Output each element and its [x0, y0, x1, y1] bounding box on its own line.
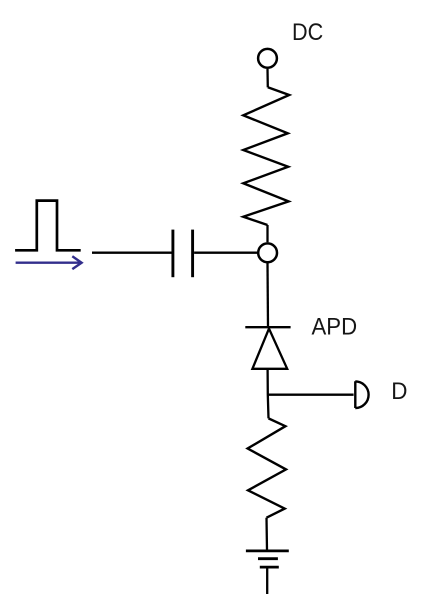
wire: [266, 369, 269, 418]
battery / supply (bottom plate): [260, 566, 279, 569]
wire: [92, 252, 172, 254]
wire (to detector): [269, 394, 354, 396]
detector D symbol: [355, 381, 368, 408]
capacitor C1: [173, 230, 193, 278]
svg-text:DC: DC: [292, 19, 323, 46]
svg-text:D: D: [391, 378, 407, 405]
wire: [266, 225, 268, 242]
diode APD (triangle): [252, 329, 287, 369]
wire: [266, 263, 269, 327]
arrow (input direction, blue): [16, 256, 82, 269]
node A (junction circle): [258, 243, 277, 262]
wire: [266, 69, 269, 88]
pulse source symbol: [15, 201, 81, 251]
resistor R2 (load): [248, 418, 286, 517]
battery / supply (long plate): [246, 550, 289, 553]
battery / supply (middle plate): [258, 557, 278, 560]
wire: [194, 252, 257, 254]
wire: [266, 569, 268, 595]
svg-text:APD: APD: [312, 314, 358, 341]
terminal DC: [258, 49, 277, 68]
diode APD (cathode bar): [245, 326, 290, 328]
wire: [265, 518, 268, 551]
resistor R1 (bias): [243, 87, 289, 225]
